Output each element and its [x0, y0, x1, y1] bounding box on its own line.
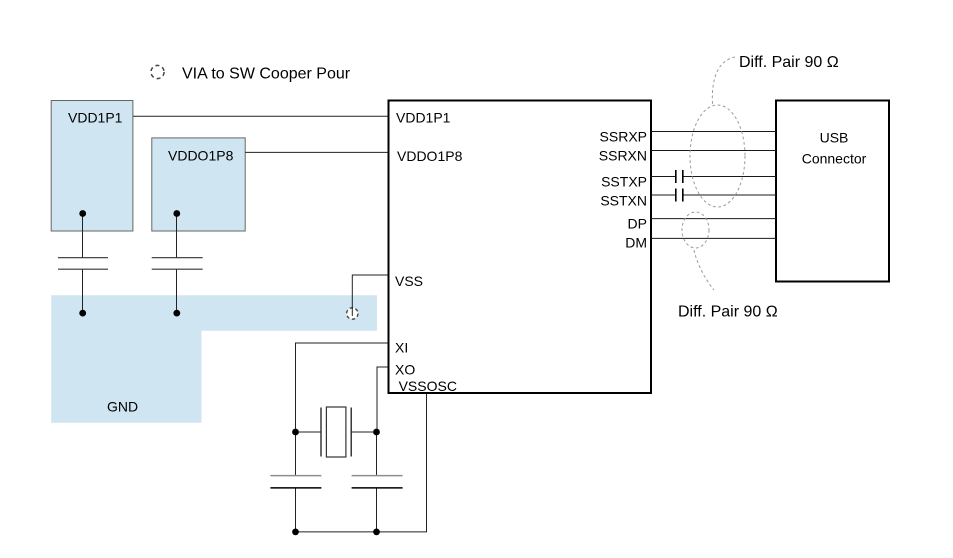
svg-text:GND: GND [107, 399, 138, 415]
svg-text:SSTXP: SSTXP [601, 174, 647, 190]
svg-text:DP: DP [628, 216, 647, 232]
svg-text:Diff. Pair 90 Ω: Diff. Pair 90 Ω [739, 54, 839, 71]
svg-text:SSRXP: SSRXP [600, 128, 647, 144]
svg-text:VDD1P1: VDD1P1 [68, 110, 123, 126]
svg-text:XO: XO [395, 362, 415, 378]
svg-text:SSTXN: SSTXN [600, 192, 647, 208]
svg-text:VDDO1P8: VDDO1P8 [168, 148, 234, 164]
svg-text:XI: XI [395, 340, 408, 356]
svg-text:Connector: Connector [802, 151, 867, 167]
svg-text:VSS: VSS [395, 273, 423, 289]
svg-text:VDDO1P8: VDDO1P8 [397, 148, 463, 164]
svg-text:USB: USB [820, 130, 849, 146]
svg-text:VDD1P1: VDD1P1 [396, 110, 451, 126]
svg-text:VSSOSC: VSSOSC [399, 378, 457, 394]
svg-text:DM: DM [625, 235, 647, 251]
svg-text:Diff. Pair 90 Ω: Diff. Pair 90 Ω [678, 304, 778, 321]
svg-text:VIA to SW Cooper Pour: VIA to SW Cooper Pour [182, 66, 351, 83]
svg-text:SSRXN: SSRXN [599, 147, 647, 163]
